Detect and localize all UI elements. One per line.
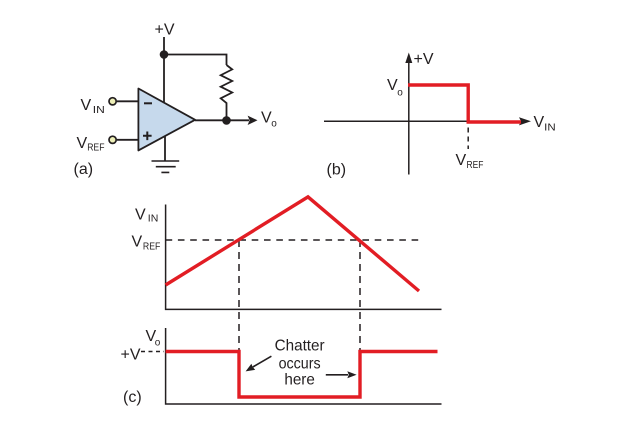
svg-text:o: o (397, 87, 403, 98)
op-amp non-inverting input symbol (+) (143, 132, 152, 141)
svg-text:REF: REF (467, 159, 484, 171)
svg-text:+V: +V (155, 22, 175, 39)
annotation arrow to rising edge (326, 374, 348, 376)
ground (152, 161, 180, 172)
wire VREF terminal to non-inverting input (117, 139, 139, 141)
(b) vertical axis (408, 62, 410, 175)
(b) output step curve (408, 85, 521, 122)
svg-text:(c): (c) (123, 389, 142, 406)
node: output junction (222, 116, 231, 125)
wire output to Vo arrow (195, 119, 249, 121)
(b) horizontal axis (324, 120, 520, 122)
terminal VIN (109, 98, 116, 105)
svg-text:IN: IN (544, 123, 556, 134)
VIN triangle waveform (166, 197, 419, 291)
svg-text:(a): (a) (74, 161, 94, 178)
op-amp inverting input symbol (-) (144, 102, 152, 104)
node: supply junction (160, 50, 169, 59)
dashed crossing vertical left (238, 240, 240, 351)
(c) Vo graph axes (166, 328, 442, 404)
svg-text:REF: REF (143, 240, 161, 252)
svg-text:occurs: occurs (279, 355, 321, 372)
resistor (pull-up) (221, 65, 233, 120)
dashed crossing vertical right (359, 240, 361, 351)
svg-text:V: V (77, 135, 88, 152)
svg-text:IN: IN (148, 214, 159, 225)
svg-text:V: V (81, 97, 92, 114)
svg-text:IN: IN (93, 105, 105, 116)
svg-text:V: V (534, 114, 545, 131)
(b) vertical axis arrowhead (405, 53, 412, 64)
Vo square waveform (166, 352, 438, 398)
annotation arrow to falling edge (253, 356, 272, 367)
dashed line VREF (b) (467, 128, 469, 150)
(c) VIN graph axes (166, 205, 442, 310)
(b) horizontal axis arrowhead (519, 117, 531, 125)
svg-text:Chatter: Chatter (275, 338, 326, 355)
svg-text:here: here (284, 372, 315, 389)
svg-text:REF: REF (87, 142, 104, 154)
svg-text:V: V (456, 152, 467, 169)
terminal VREF (109, 136, 116, 143)
svg-text:V: V (132, 233, 143, 250)
svg-text:o: o (271, 118, 277, 129)
wire VIN terminal to inverting input (117, 100, 139, 102)
wire junction to resistor top (163, 55, 226, 66)
dashed VREF threshold line (c) (166, 239, 423, 241)
op-amp U1 (138, 89, 195, 151)
svg-text:+V: +V (414, 51, 434, 68)
svg-text:+V: +V (121, 346, 141, 363)
svg-text:o: o (155, 337, 161, 348)
dashed +V level tick (141, 351, 164, 353)
svg-text:(b): (b) (327, 162, 347, 179)
arrowhead output Vo (248, 116, 258, 125)
wire +V to op-amp top edge (163, 37, 165, 102)
wire op-amp bottom to ground (164, 135, 166, 161)
svg-text:V: V (135, 206, 146, 223)
